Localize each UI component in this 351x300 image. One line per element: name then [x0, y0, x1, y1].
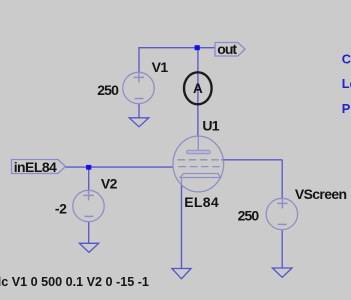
pentode U1 envelope — [173, 136, 224, 192]
svg-text:Load: Load — [342, 76, 351, 91]
wire — [197, 48, 199, 137]
wire — [88, 222, 90, 244]
node grid junction — [86, 165, 91, 170]
wire — [181, 184, 183, 269]
wire — [138, 48, 140, 73]
voltage source V1 — [123, 72, 154, 103]
pentode U1 plate lead — [197, 136, 199, 150]
ammeter A — [184, 72, 212, 104]
node out junction — [195, 45, 200, 50]
pentode U1 cathode — [180, 174, 221, 178]
wire — [281, 160, 283, 199]
svg-text:EL84: EL84 — [184, 194, 219, 210]
ground — [272, 268, 292, 277]
svg-text:inEL84: inEL84 — [14, 159, 57, 175]
svg-text:out: out — [217, 41, 237, 57]
svg-text:VScreen: VScreen — [295, 186, 347, 202]
wire — [138, 47, 215, 49]
svg-text:Plate: Plate — [342, 101, 351, 116]
voltage source VScreen — [266, 198, 297, 229]
net flag inEL84 — [12, 159, 66, 175]
ground — [129, 118, 149, 127]
pentode U1 plate (anode) bar — [187, 150, 211, 153]
svg-text:U1: U1 — [202, 118, 219, 134]
ground — [172, 269, 191, 279]
net flag out — [215, 41, 245, 57]
wire — [138, 104, 140, 118]
svg-text:V1: V1 — [152, 59, 169, 75]
svg-text:-2: -2 — [55, 200, 67, 216]
svg-text:250: 250 — [238, 208, 260, 224]
svg-text:250: 250 — [97, 82, 119, 98]
pentode U1 control grid g1 (dashed) — [179, 166, 220, 168]
pentode U1 cathode lead — [181, 178, 183, 185]
svg-text:Cathode: Cathode — [342, 51, 351, 66]
voltage source V2 — [73, 190, 104, 221]
ground — [79, 243, 98, 252]
wire — [281, 230, 283, 268]
svg-text:V2: V2 — [101, 176, 118, 192]
svg-text:.dc V1 0 500 0.1 V2 0 -15 -1: .dc V1 0 500 0.1 V2 0 -15 -1 — [0, 275, 149, 289]
wire — [66, 166, 173, 168]
wire — [88, 167, 90, 190]
svg-text:A: A — [193, 81, 203, 96]
pentode U1 screen grid g2 (dashed) — [178, 159, 219, 161]
wire — [222, 159, 283, 161]
